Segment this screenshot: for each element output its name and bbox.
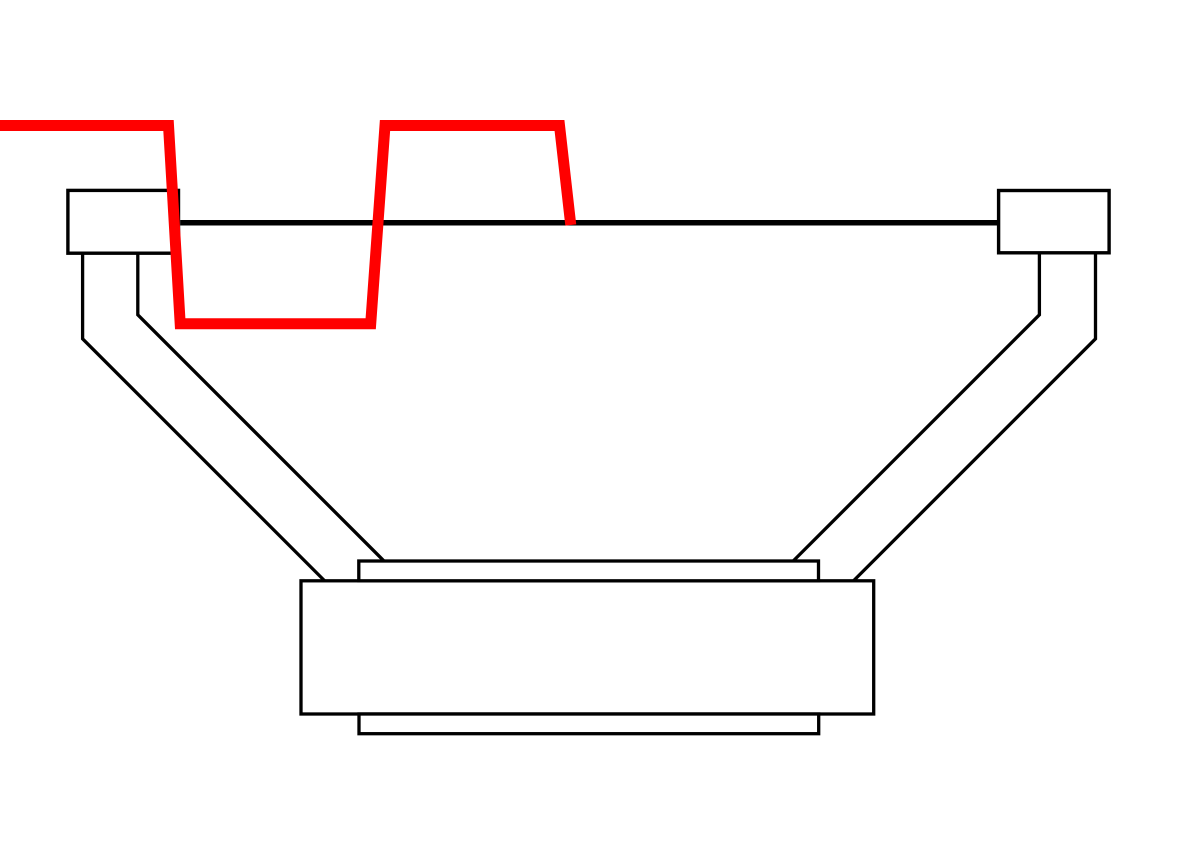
top plate (359, 561, 819, 581)
speaker frame left outer leg (83, 253, 325, 582)
speaker frame right outer leg (853, 253, 1095, 581)
speaker frame left inner leg (138, 253, 384, 562)
bottom plate (359, 714, 819, 734)
flat diaphragm line (180, 220, 997, 226)
speaker frame right inner leg (793, 253, 1039, 561)
red square-wave signal trace (0, 126, 571, 324)
magnet block (301, 581, 874, 714)
left gasket block (68, 190, 179, 253)
right gasket block (999, 191, 1110, 253)
